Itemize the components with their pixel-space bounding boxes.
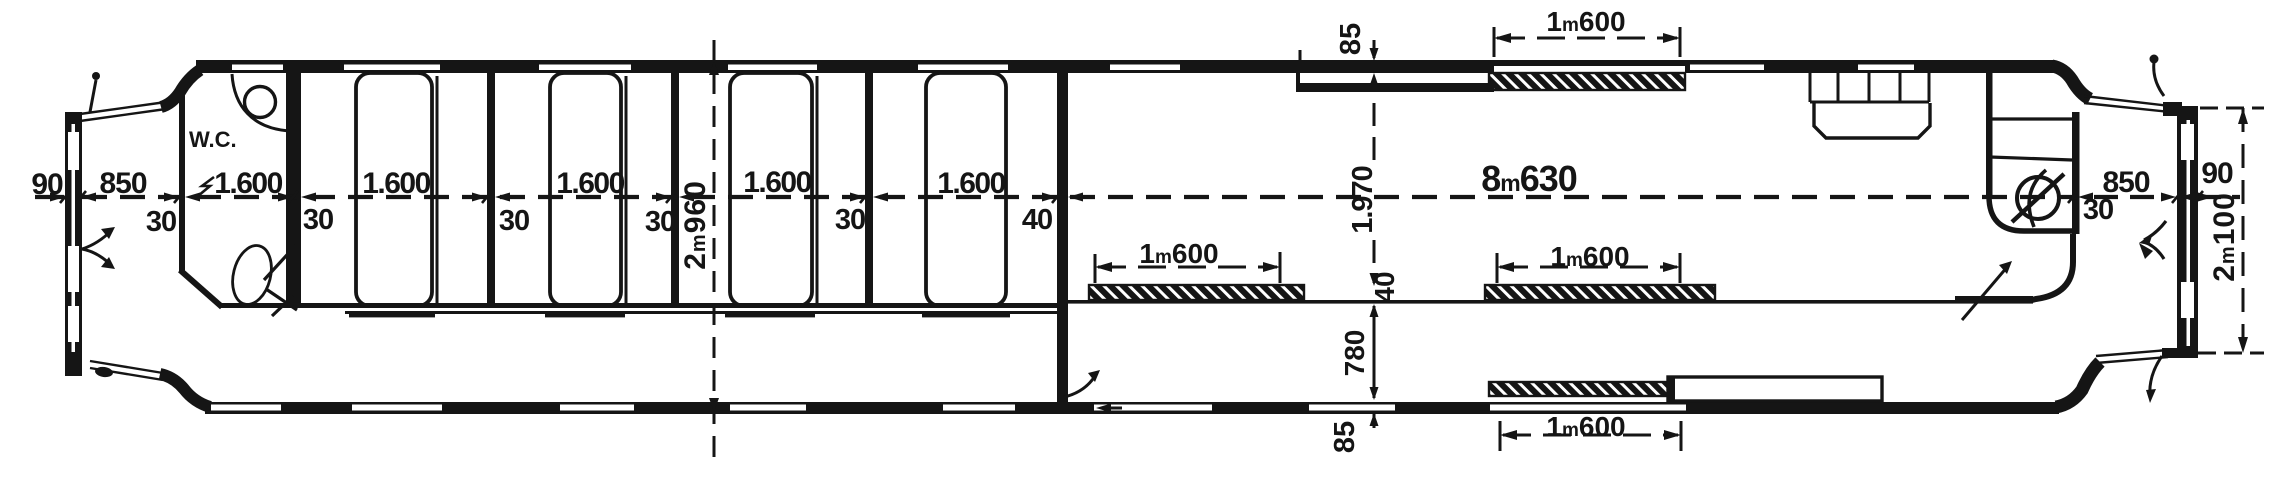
svg-text:40: 40 [1369,271,1400,302]
svg-text:1.600: 1.600 [743,166,811,199]
door pivot blob left bottom [94,366,113,378]
left top step board [80,102,166,121]
saloon partition [1057,71,1068,402]
window saloon top 1 [1110,65,1180,71]
W.C. right wall [286,71,294,307]
dimension arrows centre line [50,193,2213,202]
W.C. bottom chamfer [180,270,222,307]
svg-text:2m100: 2m100 [2208,192,2241,282]
seat bottom [1489,382,1686,396]
battery tub [1814,103,1930,138]
window saloon top 3 [1858,65,1914,71]
right top corner curve [2052,66,2090,99]
window bay3 top [728,65,817,71]
window W.C. top [232,65,283,71]
1m600 mid-left dimension [1095,252,1280,283]
svg-text:1.970: 1.970 [1347,166,1379,234]
svg-text:W.C.: W.C. [189,127,237,152]
battery box top right [1810,72,1929,102]
door swing saloon left [1064,373,1097,397]
svg-text:8m630: 8m630 [1481,158,1577,199]
svg-text:90: 90 [31,168,63,201]
svg-text:30: 30 [499,205,529,237]
cab desk line 2 [1990,157,2072,160]
partition 2 [487,71,495,307]
door arc right top [2154,62,2164,96]
svg-text:30: 30 [146,206,176,238]
bottom step rectangle [1668,377,1882,401]
svg-text:30: 30 [835,204,865,236]
svg-text:850: 850 [99,167,146,200]
W.C. toilet [227,241,277,308]
cab corner curve [1989,196,2074,231]
window bottom corridor 3 [730,405,806,411]
window bottom saloon 2 [1309,405,1395,411]
right bottom wall junction blob [2162,348,2188,358]
window bottom corridor 1 [352,405,442,411]
door arc right bottom [2150,356,2162,398]
squiggle before 1.600 [198,177,214,196]
top recess bar [1296,83,1494,92]
compartment bay3 box [730,73,812,306]
partition 4 [865,71,873,307]
2m100 dimension right [2198,108,2264,353]
oblique ticks at walls [60,191,2203,203]
W.C. sink counter curve [232,74,289,131]
partition 3 [671,71,679,307]
bottom wall [205,402,2059,414]
vertical dimension column x=1374 [1373,40,1376,428]
svg-text:1.600: 1.600 [362,167,430,200]
top wall [196,60,1494,73]
window bay1 top [344,65,440,71]
left top corner curve [161,70,200,107]
compartment bay1 box [356,73,432,306]
1m600 top dimension [1494,27,1680,57]
left bottom step board [90,361,163,380]
right top wall junction blob [2163,102,2182,116]
right end wall [2177,106,2198,358]
W.C. door swing [264,245,297,316]
svg-text:1.600: 1.600 [937,167,1005,200]
svg-text:30: 30 [2083,194,2113,226]
door threshold bay2 [545,314,625,317]
window bottom corridor 4 [943,405,1015,411]
left end wall [65,112,82,376]
svg-text:1.600: 1.600 [556,167,624,200]
partition 1 [293,71,301,307]
svg-text:85: 85 [1335,23,1367,55]
door swing left platform [82,230,112,266]
door threshold bay1 [349,314,435,317]
compartment bay4 box [926,73,1006,306]
cab desk line 1 [1990,117,2074,120]
door arc left top [90,80,96,112]
svg-text:40: 40 [1022,204,1052,236]
window bay4 top [918,65,1008,71]
window bay2 top [539,65,631,71]
svg-text:85: 85 [1329,421,1361,453]
svg-text:1m600: 1m600 [1546,6,1625,37]
svg-text:30: 30 [303,204,333,236]
handbrake wheel [2017,177,2059,219]
svg-text:1.600: 1.600 [214,167,282,200]
door swing cab [1962,266,2008,320]
cab lower corner [2032,234,2073,300]
2m960 section line [713,40,716,464]
corridor wall lower line [345,311,1057,314]
door threshold bay4 [922,314,1010,317]
right bottom step board [2096,350,2168,363]
door threshold bay3 [725,314,815,317]
left bottom corner curve [160,374,210,407]
1m600 mid-right dimension [1497,253,1680,283]
svg-text:780: 780 [1339,330,1370,377]
svg-text:1m600: 1m600 [1550,241,1629,272]
cab front wall [1986,71,1993,199]
cab right wall [2072,112,2080,234]
window bottom saloon 3 [1490,405,1686,411]
window bottom saloon 1 [1094,405,1212,411]
window saloon top 2 [1690,65,1764,71]
svg-text:30: 30 [645,206,675,238]
corridor wall [219,303,1068,308]
seat mid-right [1485,285,1715,300]
W.C. sink [245,87,276,118]
seat mid-left [1089,285,1304,300]
svg-text:1m600: 1m600 [1546,411,1625,442]
1m600 bottom dimension [1500,421,1681,451]
svg-text:90: 90 [2201,157,2233,190]
right bottom corner curve [2056,362,2100,407]
window bottom corridor 2 [560,405,634,411]
centre dashed line [35,195,2240,199]
seat top-right [1489,73,1685,90]
W.C. left wall [179,88,185,273]
svg-text:2m960: 2m960 [679,180,712,270]
compartment bay2 box [550,73,621,306]
window bottom corridor 0 [211,405,281,411]
door swing right platform [2144,221,2166,259]
svg-text:1m600: 1m600 [1139,238,1218,269]
aisle line saloon [1068,300,2033,304]
right top step board [2084,96,2170,112]
